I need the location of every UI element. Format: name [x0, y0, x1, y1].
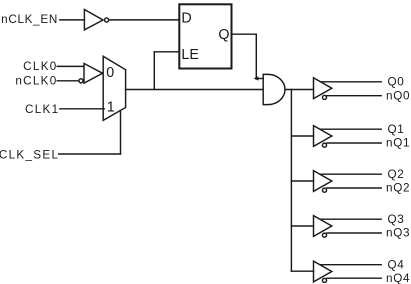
wire Q2 [321, 173, 382, 175]
wire latch Q vertical down [255, 34, 257, 78]
wire Q1 [321, 128, 382, 130]
wire nQ2 [327, 187, 381, 189]
svg-text:CLK1: CLK1 [25, 103, 59, 116]
wire nCLK0 [57, 80, 78, 82]
svg-text:LE: LE [181, 47, 199, 63]
wire Q3 [321, 218, 382, 220]
wire tap to buffer 4 [291, 225, 313, 227]
arrowhead on Q wire [254, 76, 259, 80]
svg-text:nQ4: nQ4 [386, 272, 410, 284]
wire inverter to latch D [109, 19, 179, 21]
wire CLK_SEL horizontal [59, 153, 121, 155]
output buffer U8 [314, 171, 332, 192]
wire tap to buffer 3 [291, 180, 313, 182]
svg-text:Q2: Q2 [388, 168, 405, 181]
svg-text:Q: Q [218, 27, 229, 43]
inverter U1 output bubble [105, 18, 109, 22]
output buffer U10 [314, 261, 332, 282]
buffer U9 bubble [322, 233, 326, 237]
svg-text:CLK0: CLK0 [23, 60, 57, 73]
input buffer U3 [84, 63, 103, 83]
wire fanout vertical [290, 90, 292, 272]
wire Q4 [321, 264, 382, 266]
wire latch Q horizontal [232, 33, 256, 35]
buffer U7 bubble [322, 143, 326, 147]
output buffer U9 [314, 216, 332, 237]
svg-text:Q0: Q0 [388, 76, 405, 89]
wire nCLK_EN to inverter [60, 19, 85, 21]
output buffer U7 [314, 126, 332, 147]
svg-text:D: D [181, 11, 191, 27]
svg-text:0: 0 [106, 65, 114, 81]
wire nQ1 [327, 142, 381, 144]
wire tap to buffer 5 [291, 270, 313, 272]
AND gate U5 [263, 74, 285, 104]
buffer U10 bubble [322, 278, 326, 282]
svg-text:nQ2: nQ2 [386, 182, 410, 195]
mux U4 body [103, 56, 125, 120]
svg-text:Q3: Q3 [388, 213, 405, 226]
wire Q0 [321, 81, 382, 83]
svg-text:nQ3: nQ3 [386, 227, 410, 240]
wire mux output to AND gate [126, 89, 264, 91]
wire nQ3 [327, 232, 381, 234]
svg-text:nCLK_EN: nCLK_EN [1, 13, 58, 26]
svg-text:Q1: Q1 [388, 123, 405, 136]
latch U2 body [179, 4, 231, 68]
svg-text:nQ1: nQ1 [386, 137, 410, 150]
wire LE vertical to mux output net [153, 52, 155, 90]
input buffer U3 bubble on nCLK0 [79, 79, 83, 83]
wire AND output [285, 89, 313, 91]
wire tap to buffer 2 [291, 135, 313, 137]
wire nQ0 [327, 95, 381, 97]
inverter U1 [84, 10, 103, 30]
svg-text:nCLK0: nCLK0 [15, 74, 57, 87]
buffer U6 bubble [322, 95, 326, 99]
svg-text:1: 1 [107, 100, 115, 116]
wire CLK1 to mux [60, 108, 104, 110]
wire LE horizontal [154, 51, 178, 53]
wire CLK0 [57, 65, 84, 67]
svg-text:Q4: Q4 [388, 258, 405, 271]
buffer U8 bubble [322, 188, 326, 192]
svg-text:nQ0: nQ0 [386, 89, 410, 102]
svg-text:CLK_SEL: CLK_SEL [0, 148, 59, 161]
wire Q stub into AND gate [256, 78, 264, 80]
wire CLK_SEL vertical to mux select [120, 111, 122, 155]
wire nQ4 [327, 277, 381, 279]
output buffer U6 [314, 78, 332, 99]
